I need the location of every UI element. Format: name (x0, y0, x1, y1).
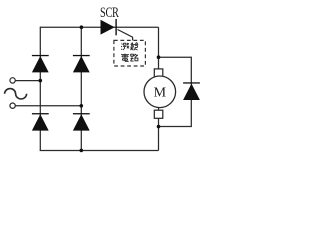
svg-text:M: M (154, 86, 167, 101)
junction dot ac-right (80, 104, 84, 108)
wire right branch (80, 27, 82, 150)
trigger text row1 char fa (drawn strokes) (131, 43, 139, 51)
junction dot motor bottom (157, 125, 161, 129)
wire ac bottom (15, 105, 81, 107)
wire left branch (39, 27, 41, 151)
svg-text:SCR: SCR (100, 5, 119, 21)
diode D5 freewheel (183, 82, 200, 100)
SCR thyristor (101, 19, 117, 35)
diode D1 top-left (32, 55, 49, 73)
trigger text row1 char ji (drawn strokes) (121, 43, 129, 50)
wire ac top (15, 80, 40, 82)
junction dot ac-left (39, 79, 43, 83)
diode D4 bottom-right (73, 113, 90, 131)
junction dot motor top (157, 55, 161, 59)
wire SCR gate (118, 30, 133, 41)
motor brush square bottom (154, 110, 163, 118)
motor brush square top (154, 69, 163, 77)
diode D3 bottom-left (32, 113, 49, 131)
junction dot bottom rail (80, 149, 84, 153)
junction dot top right-branch (80, 25, 84, 29)
wire top rail (40, 26, 158, 28)
diode D2 top-right (73, 55, 90, 73)
trigger text row2 char lu (drawn strokes) (131, 54, 138, 61)
trigger circuit dashed box (114, 40, 145, 66)
wire bottom rail (40, 150, 159, 152)
ac sine symbol (5, 89, 27, 99)
trigger text row2 char dian (drawn strokes) (121, 54, 129, 62)
wire motor branch (158, 27, 160, 150)
motor M circle (144, 76, 176, 108)
ac terminal bottom (10, 103, 15, 108)
wire freewheel branch (159, 57, 192, 126)
ac terminal top (10, 78, 15, 83)
